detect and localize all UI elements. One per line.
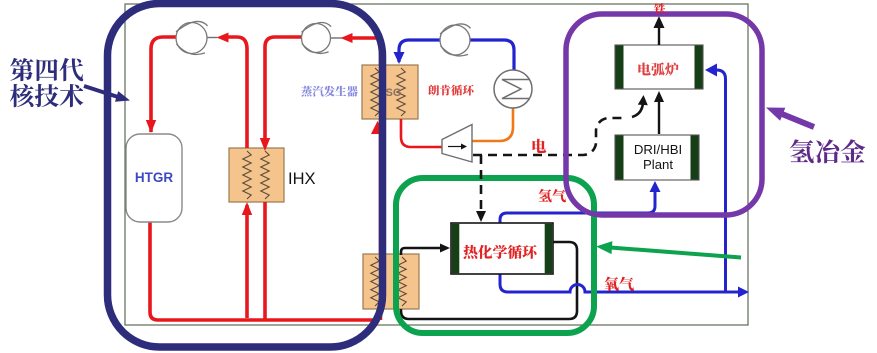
wire blue rankine feed SG-pump-condenser	[399, 40, 514, 71]
wire blue hydrogen thermochem to DRI	[500, 186, 655, 223]
arrow red into circulator1	[217, 33, 229, 43]
arrow blue oxygen out right	[738, 287, 749, 298]
arrow black DRI to EAF	[658, 97, 660, 134]
outer thin border	[125, 4, 748, 325]
wire dashed electricity from turbine	[473, 118, 627, 155]
arrow red into HTGR top	[146, 120, 156, 133]
wire red SG to turbine	[401, 119, 442, 147]
arrow red into IHX bottom	[242, 202, 252, 215]
svg-text:Plant: Plant	[643, 157, 673, 172]
arrow black curved electricity into EAF	[632, 103, 643, 117]
label 电	[533, 139, 547, 153]
label 第四代 line1	[10, 58, 83, 81]
arrow green annotation thermochem	[610, 248, 741, 258]
arrow red into IHX top	[260, 138, 270, 151]
pump P1 rankine	[440, 24, 471, 56]
box thermochemical cycle	[451, 223, 553, 274]
arrowhead DRI to EAF	[654, 91, 664, 102]
label 铁	[654, 3, 665, 14]
arrow dashed into thermochem top	[476, 211, 486, 222]
arrow blue into SG top	[394, 52, 405, 64]
frame navy 4th-gen nuclear	[108, 4, 383, 348]
wire red riser behind navy frame	[379, 38, 383, 320]
label 核技术 line2	[10, 84, 84, 107]
label 朗肯循环	[428, 85, 473, 96]
wire black thermochem heat loop	[401, 248, 444, 255]
arrowhead purple annotation	[766, 108, 785, 121]
condenser circle	[494, 70, 532, 108]
heat exchanger SG box (steam generator)	[362, 65, 418, 119]
svg-text:SG: SG	[386, 87, 402, 99]
arrowhead green annotation	[596, 241, 612, 254]
label 氧气	[604, 277, 634, 291]
arrow black EAF to iron out	[658, 24, 660, 45]
circulator C1 primary	[176, 21, 208, 54]
arrow blue into EAF right	[705, 64, 717, 77]
arrow red into circulator2	[341, 33, 353, 43]
svg-text:IHX: IHX	[288, 170, 316, 188]
arrow purple annotation hydrogen-metallurgy	[782, 114, 814, 127]
arrowhead navy annotation	[115, 91, 130, 102]
label 氢冶金	[790, 139, 865, 163]
label 氢气	[538, 189, 566, 202]
circulator C2 secondary	[302, 22, 332, 53]
frame purple hydrogen metallurgy	[566, 14, 762, 215]
arrow red into SG bottom	[371, 121, 384, 134]
arrow blue hydrogen into DRI bottom	[650, 181, 661, 192]
arrowhead turbine internal	[461, 144, 467, 150]
arrowhead electricity into EAF	[638, 95, 648, 105]
box DRI/HBI plant	[615, 135, 699, 180]
frame green thermochemical cycle	[396, 178, 594, 333]
wire red IHX left pipe	[245, 49, 249, 148]
wire red primary loop HTGR-IHX	[151, 37, 176, 132]
arrowhead EAF to iron	[654, 16, 665, 28]
turbine T1	[442, 125, 472, 163]
svg-text:DRI/HBI: DRI/HBI	[634, 142, 682, 157]
wire gray port stub circulator2	[331, 37, 342, 39]
box electric arc furnace	[615, 45, 703, 89]
arrow black into thermochem box	[440, 244, 450, 253]
label 蒸汽发生器	[301, 86, 358, 97]
label 热化学循环	[463, 245, 536, 259]
wire blue oxygen from thermochem box	[500, 274, 741, 292]
wire orange condenser to turbine	[472, 107, 513, 141]
wire red secondary loop IHX-SG	[265, 37, 302, 146]
reactor HTGR vessel	[126, 134, 182, 222]
wire blue riser to EAF	[709, 70, 726, 292]
arrow navy annotation 4th-gen	[84, 86, 118, 97]
label 电弧炉	[638, 62, 678, 75]
heat exchanger bottom (process heat) box	[363, 254, 419, 309]
svg-text:HTGR: HTGR	[135, 170, 173, 185]
heat exchanger IHX box	[229, 148, 284, 202]
wire red HTGR bottom run	[150, 222, 378, 320]
wire gray port stub circulator1	[204, 37, 217, 39]
